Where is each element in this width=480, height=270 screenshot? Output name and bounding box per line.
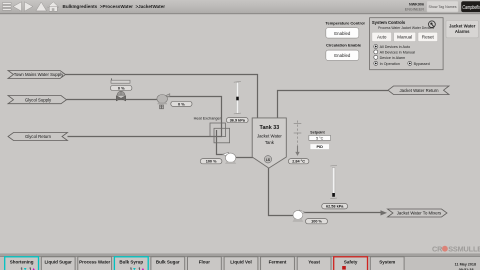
svg-text:Glycol Return: Glycol Return <box>25 134 52 139</box>
svg-text:11 May 2018: 11 May 2018 <box>455 263 476 267</box>
svg-text:0 %: 0 % <box>178 101 185 106</box>
svg-text:Jacket Water: Jacket Water <box>257 133 282 138</box>
svg-text:Tank 33: Tank 33 <box>260 125 280 131</box>
svg-text:PID: PID <box>316 144 323 149</box>
svg-text:BulkIngredients >ProcessWater: BulkIngredients >ProcessWater >JacketWat… <box>63 4 166 9</box>
svg-text:▼: ▼ <box>132 266 136 270</box>
svg-text:All Devices in Auto: All Devices in Auto <box>380 45 411 49</box>
svg-text:Enabled: Enabled <box>334 53 351 58</box>
svg-text:SSMULLER: SSMULLER <box>448 245 480 254</box>
svg-text:LS: LS <box>266 158 270 162</box>
svg-text:Circulation Enable: Circulation Enable <box>326 42 362 47</box>
svg-text:Process Water Jacket Water Dev: Process Water Jacket Water Devices <box>378 26 434 30</box>
svg-text:Jacket Water Return: Jacket Water Return <box>399 88 439 93</box>
svg-text:Liquid Sugar: Liquid Sugar <box>44 260 72 265</box>
svg-text:NWK906: NWK906 <box>409 3 424 7</box>
svg-text:All Devices in Manual: All Devices in Manual <box>380 50 415 54</box>
svg-text:System: System <box>379 260 395 265</box>
svg-text:Auto: Auto <box>377 35 387 40</box>
svg-text:Ferment: Ferment <box>269 260 287 265</box>
svg-text:Alarms: Alarms <box>455 29 470 34</box>
svg-text:100 %: 100 % <box>311 220 322 224</box>
svg-text:System Controls: System Controls <box>372 20 406 25</box>
svg-text:▼: ▼ <box>23 266 27 270</box>
svg-text:▲: ▲ <box>141 266 145 270</box>
svg-text:ENGINEER: ENGINEER <box>405 8 425 12</box>
svg-text:Jacket Water: Jacket Water <box>449 24 476 29</box>
svg-text:Reset: Reset <box>422 35 435 40</box>
svg-text:62.58 kPa: 62.58 kPa <box>326 205 344 209</box>
svg-text:Tank: Tank <box>265 140 275 145</box>
svg-text:0 %: 0 % <box>118 86 125 91</box>
svg-text:2.84 °C: 2.84 °C <box>292 160 305 164</box>
svg-text:Bulk Sugar: Bulk Sugar <box>156 260 180 265</box>
svg-text:Jacket Water To Mixers: Jacket Water To Mixers <box>397 211 441 216</box>
svg-text:Glycol Supply: Glycol Supply <box>25 97 52 102</box>
svg-text:Yeast: Yeast <box>308 260 320 265</box>
svg-text:CR: CR <box>432 245 443 254</box>
svg-text:Safety: Safety <box>344 260 358 265</box>
svg-text:Setpoint: Setpoint <box>310 131 325 135</box>
svg-text:Temperature Control: Temperature Control <box>325 20 364 25</box>
svg-text:5 °C: 5 °C <box>316 136 324 140</box>
svg-text:Show Tag Names: Show Tag Names <box>428 5 456 9</box>
svg-text:Device in Alarm: Device in Alarm <box>380 56 406 60</box>
svg-text:Town Mains Water Supply: Town Mains Water Supply <box>14 72 64 77</box>
svg-text:Process Water: Process Water <box>79 260 110 265</box>
svg-text:In Operation: In Operation <box>380 62 400 66</box>
svg-text:Heat Exchanger: Heat Exchanger <box>194 117 222 121</box>
svg-text:Campbells: Campbells <box>462 5 480 11</box>
svg-text:Manual: Manual <box>397 35 412 40</box>
svg-text:Flour: Flour <box>199 260 210 265</box>
svg-text:Bypassed: Bypassed <box>414 62 430 66</box>
svg-text:Bulk Syrup: Bulk Syrup <box>119 260 143 265</box>
svg-text:36.9 kPa: 36.9 kPa <box>230 119 246 123</box>
svg-text:Liquid Vol: Liquid Vol <box>230 260 251 265</box>
svg-text:100 %: 100 % <box>206 160 217 164</box>
svg-text:▲: ▲ <box>32 266 36 270</box>
svg-text:Enabled: Enabled <box>334 31 351 36</box>
svg-text:Shortening: Shortening <box>10 260 34 265</box>
